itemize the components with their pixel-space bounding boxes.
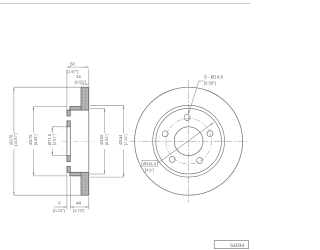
svg-text:Ø166: Ø166 (99, 134, 104, 145)
section horizontal centerline (62, 140, 95, 142)
dim 50 overall height (67, 67, 89, 110)
disc outboard face edge through hat opening (88, 110, 90, 172)
svg-text:Ø114.3: Ø114.3 (143, 161, 157, 166)
svg-text:[0.24"]: [0.24"] (53, 208, 64, 213)
bottom hat wall bar (hatched) (70, 172, 81, 176)
svg-text:[7.24"]: [7.24"] (124, 134, 128, 145)
svg-text:[6.54"]: [6.54"] (105, 134, 109, 145)
svg-text:[2.81"]: [2.81"] (53, 134, 57, 145)
horizontal centerline (130, 140, 248, 142)
bolt hole 5 (upper right) (207, 131, 213, 137)
svg-text:[1.97"]: [1.97"] (67, 69, 78, 74)
braking surface inner circle (outer of pair) (153, 105, 225, 177)
svg-text:[4.5"]: [4.5"] (145, 168, 154, 173)
bolt hole 3 (lower left) (169, 156, 175, 162)
svg-text:5 - Ø14.8: 5 - Ø14.8 (204, 74, 223, 79)
bolt hole 2 (upper left) (162, 131, 168, 137)
hat mounting plate upper part (hatched, above center hole, split at lug hole) (67, 110, 70, 127)
svg-text:6: 6 (58, 201, 61, 206)
lug hole (hidden) in upper plate (67, 116, 70, 121)
svg-text:[6.89"]: [6.89"] (34, 134, 38, 145)
bolt hole 4 (lower right) (197, 157, 203, 163)
svg-text:[0.58"]: [0.58"] (204, 80, 216, 85)
svg-text:[0.55"]: [0.55"] (75, 80, 86, 85)
top hat wall bar (hatched) (70, 107, 81, 111)
disc braking band, top segment (hatched) (81, 87, 89, 110)
center hole (174, 127, 203, 156)
svg-text:Ø276: Ø276 (9, 134, 14, 145)
bolt hole 1 (top) (184, 114, 190, 120)
outer circle (135, 87, 243, 195)
plate bore rim edges across center hole gap (67, 127, 70, 156)
lug hole (hidden) in lower plate (67, 162, 70, 167)
svg-text:Ø184: Ø184 (118, 134, 123, 145)
svg-text:[1.73"]: [1.73"] (73, 208, 84, 213)
vertical centerline (188, 80, 190, 203)
svg-text:Ø71.5: Ø71.5 (47, 133, 52, 145)
top page border (0, 3, 250, 5)
bolt circle (dash-dot) (166, 118, 212, 164)
svg-text:54034: 54034 (230, 243, 244, 249)
svg-text:44: 44 (76, 201, 81, 206)
svg-text:14: 14 (76, 74, 81, 79)
svg-text:[10.87"]: [10.87"] (14, 133, 18, 146)
svg-text:50: 50 (70, 61, 75, 66)
hat mounting plate lower part (hatched, below center hole, split at lug hole) (67, 156, 70, 173)
svg-text:Ø175: Ø175 (28, 134, 33, 145)
braking surface inner circle (inner of pair) (156, 108, 222, 174)
disc braking band, bottom segment (hatched) (81, 172, 89, 195)
